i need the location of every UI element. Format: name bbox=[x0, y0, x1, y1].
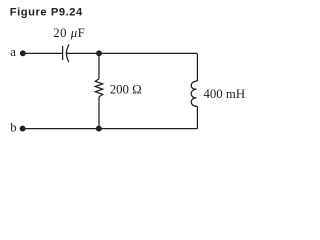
top junction node dot bbox=[96, 50, 102, 56]
resistor R1 top lead wire bbox=[98, 53, 100, 78]
inductor L1 coil bbox=[191, 81, 197, 106]
right branch lower wire bbox=[196, 106, 198, 128]
wire a to capacitor bbox=[24, 52, 62, 54]
bottom wire b to bottom-right corner bbox=[24, 128, 197, 130]
svg-text:20 μF: 20 μF bbox=[53, 26, 85, 40]
svg-text:b: b bbox=[10, 121, 16, 135]
bottom junction node dot bbox=[96, 126, 102, 132]
node b terminal dot bbox=[20, 126, 26, 132]
svg-text:400 mH: 400 mH bbox=[204, 87, 246, 101]
resistor R1 bottom lead wire bbox=[98, 97, 100, 129]
right branch upper wire bbox=[196, 53, 198, 81]
wire capacitor to top-right corner bbox=[66, 52, 197, 54]
svg-text:Figure P9.24: Figure P9.24 bbox=[10, 7, 83, 19]
capacitor C1 curved plate bbox=[66, 44, 69, 62]
node a terminal dot bbox=[20, 50, 26, 56]
resistor R1 zigzag 200 ohm bbox=[95, 79, 102, 97]
capacitor C1 left plate bbox=[62, 46, 64, 60]
svg-text:200 Ω: 200 Ω bbox=[110, 83, 142, 97]
svg-text:a: a bbox=[10, 45, 16, 59]
